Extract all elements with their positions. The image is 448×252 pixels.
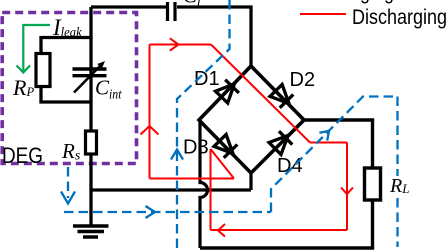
wire: Cint branch vertical down to Rs — [89, 38, 92, 132]
wire: bridge left vertex down with hop over ground rail — [200, 121, 208, 248]
svg-text:Charging: Charging — [321, 0, 394, 4]
wire: top rail right segment and corner down to bridge top — [177, 7, 251, 66]
wire: from Rs down to ground — [89, 154, 92, 226]
red arrow left on bottom horizontal — [218, 224, 225, 237]
blue arrow down under DEG — [61, 192, 75, 204]
wire: top rail left segment (node between DEG and Cf) — [91, 5, 166, 8]
diode D2 — [270, 85, 293, 108]
svg-text:D4: D4 — [277, 155, 303, 177]
wire blue diagonal up to RL top — [271, 97, 398, 213]
red discharging current loop — [141, 38, 354, 236]
svg-text:Cint: Cint — [95, 76, 122, 103]
svg-text:D3: D3 — [183, 137, 209, 159]
resistor RL — [365, 168, 381, 200]
diode D1 — [216, 80, 239, 103]
DEG dashed boundary box — [2, 13, 136, 164]
svg-text:Discharging: Discharging — [352, 5, 447, 29]
wire blue right vertical — [396, 97, 398, 248]
svg-text:DEG: DEG — [2, 143, 43, 168]
wire blue from DEG box bottom — [67, 167, 69, 198]
wire blue top vertical entering image — [177, 0, 230, 252]
diode D3 — [214, 135, 237, 158]
svg-text:D2: D2 — [290, 69, 316, 91]
wire: ground rail from DEG to bridge bottom — [91, 188, 251, 191]
wire red right horizontal — [310, 142, 347, 144]
wire: bridge bottom stub — [249, 173, 252, 190]
capacitor Cint variable arrow — [74, 65, 101, 93]
svg-text:Ileak: Ileak — [52, 15, 82, 41]
resistor RL label — [387, 176, 412, 194]
red arrow up on left vertical — [141, 126, 159, 135]
wire red triangle bottom back to start — [150, 178, 235, 180]
blue arrow NE on diagonal — [319, 131, 329, 141]
svg-text:Rs: Rs — [61, 139, 81, 164]
red arrow down on right vertical — [341, 188, 353, 195]
wire blue bottom horizontal — [64, 211, 271, 213]
wire red diagonal through bridge — [211, 45, 310, 143]
wire red top horizontal — [150, 44, 212, 46]
wire: Rp branch lower and combo bottom wire — [41, 87, 91, 103]
wire red inner vertical — [210, 149, 212, 230]
ground symbol — [73, 226, 109, 237]
wire red right vertical — [346, 143, 348, 231]
blue arrow up on inner vertical — [171, 150, 183, 160]
resistor Rp — [36, 54, 50, 87]
wire: bottom rail to RL — [200, 120, 373, 248]
legend Discharging red line — [300, 13, 346, 15]
blue arrow right on bottom horizontal — [146, 206, 156, 218]
green arrow for Ileak — [23, 25, 50, 71]
diode D4 — [269, 131, 292, 154]
capacitor Cf plates — [168, 2, 176, 21]
wire red left vertical — [149, 45, 151, 179]
wire red bottom horizontal — [211, 229, 348, 231]
wire: DEG internal vertical from top rail to parallel combo — [41, 7, 91, 54]
red arrow right on top horizontal — [170, 38, 179, 50]
wire red triangle hypotenuse — [211, 149, 235, 179]
svg-text:RP: RP — [12, 75, 34, 100]
resistor Rs — [86, 131, 97, 154]
capacitor Cint plates — [73, 69, 107, 76]
diode bridge diamond — [199, 66, 304, 173]
blue charging current path — [61, 0, 398, 252]
